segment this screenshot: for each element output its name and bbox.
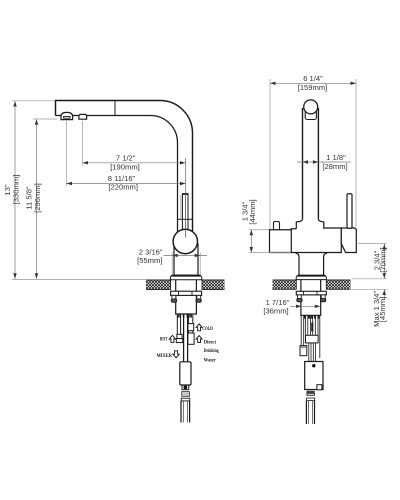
dim line max tail	[383, 289, 385, 300]
base flange	[296, 275, 326, 279]
ext line spout top	[12, 100, 55, 102]
valve box notch	[317, 385, 322, 390]
spout divider	[114, 101, 116, 116]
left stud	[297, 295, 301, 299]
ext line 6 1/4 left	[269, 79, 271, 229]
handle block	[341, 228, 356, 253]
ext line nozzle	[82, 121, 84, 166]
svg-text:COLD: COLD	[202, 326, 213, 332]
lower hose tube	[181, 401, 190, 423]
valve body below joint	[174, 244, 198, 275]
wand hose	[184, 315, 188, 362]
aerator mouth	[64, 116, 70, 118]
outlet tube	[306, 401, 314, 424]
dim line 1 3/4	[250, 230, 252, 253]
arrowheads 1 7/16	[296, 305, 320, 308]
arrowheads 6 1/4	[270, 82, 356, 85]
ext line aerator	[66, 121, 68, 186]
left stud foot	[171, 299, 176, 302]
cold hose connector	[188, 324, 194, 331]
clip dot	[184, 386, 188, 390]
shank through counter	[301, 280, 321, 315]
ext lines 2 3/16	[172, 253, 200, 275]
main body	[291, 228, 341, 253]
counter edges	[273, 280, 351, 289]
arrowhead max up	[383, 290, 386, 296]
svg-text:HOT: HOT	[160, 337, 168, 343]
dim line 13in	[14, 102, 16, 279]
base flange	[170, 275, 201, 280]
ball joint circle	[173, 229, 197, 253]
handle lever	[347, 194, 352, 229]
spout outer outline	[56, 101, 193, 236]
countertop hatched right part	[202, 280, 225, 290]
shank through counter	[176, 280, 197, 314]
ext line counter bottom right	[352, 288, 388, 290]
bundle connector inner	[309, 343, 316, 362]
drinking water connector	[188, 333, 194, 344]
svg-text:[55mm]: [55mm]	[137, 256, 162, 265]
neck	[296, 253, 327, 275]
countertop hatched left part	[273, 280, 297, 289]
svg-text:[190mm]: [190mm]	[110, 163, 140, 172]
right stud foot	[196, 299, 201, 302]
svg-text:[44mm]: [44mm]	[248, 199, 257, 224]
small connector box	[300, 346, 307, 356]
svg-text:1 1/8": 1 1/8"	[326, 153, 346, 162]
hose weight cylinder	[180, 362, 191, 385]
ext line handle bottom	[358, 243, 387, 245]
gray sleeve	[182, 392, 190, 397]
arrowheads 7 1/2	[83, 161, 186, 164]
cold supply hose	[188, 315, 192, 324]
mixer arrow down	[173, 351, 179, 358]
arrowheads 2 3/16	[172, 254, 200, 257]
wand top edge	[182, 193, 188, 195]
wire center extension line x=185.5 (upper part)	[185, 158, 187, 193]
cold knob	[274, 222, 280, 230]
svg-text:6 1/4": 6 1/4"	[303, 74, 323, 83]
hose stubs below shank	[178, 314, 191, 317]
ext line counter top left	[12, 279, 146, 281]
collar ring 2	[307, 398, 315, 401]
ext lines 1 3/4	[249, 230, 291, 253]
svg-text:[45mm]: [45mm]	[378, 297, 387, 322]
spout tube	[303, 108, 319, 219]
svg-text:[296mm]: [296mm]	[33, 183, 42, 213]
dim line 1 1/8 leader	[297, 161, 351, 163]
wand joint line	[178, 218, 192, 220]
right stud foot	[320, 298, 325, 301]
nozzle button	[79, 114, 87, 119]
dim line 11 5/8	[36, 120, 38, 279]
dim leader 1 7/16	[290, 305, 320, 307]
hot supply hose	[177, 315, 180, 334]
svg-text:[159mm]: [159mm]	[298, 83, 328, 92]
ext line counter top right	[352, 278, 387, 280]
svg-text:7 1/2": 7 1/2"	[116, 154, 136, 163]
arrowheads 8 11/16	[67, 182, 186, 185]
cold arrow up	[196, 324, 202, 331]
collar ring 1	[307, 393, 315, 395]
filter valve box	[305, 362, 323, 390]
countertop hatched left part	[146, 280, 171, 290]
drinking arrow up	[196, 336, 202, 343]
dim line 8 11/16	[67, 183, 186, 185]
arrowheads 1 3/4	[250, 230, 253, 253]
head collar	[305, 111, 316, 120]
arrowheads 2 3/4	[383, 244, 386, 279]
cold valve block	[270, 230, 292, 253]
dim line 2 3/16	[164, 254, 208, 256]
right outer hose line	[319, 315, 321, 358]
svg-text:Direct: Direct	[204, 339, 216, 345]
left stud	[172, 295, 176, 299]
svg-text:[28mm]: [28mm]	[322, 162, 347, 171]
bundle dark dash	[311, 323, 313, 332]
svg-text:Water: Water	[204, 358, 216, 364]
arrowheads 1 1/8	[303, 160, 319, 163]
dim line 7 1/2	[83, 162, 186, 164]
weight clip box	[182, 385, 189, 389]
svg-text:[36mm]: [36mm]	[263, 307, 288, 316]
ext line 6 1/4 right	[355, 79, 357, 227]
dark collar band	[307, 391, 315, 393]
svg-text:1 7/16": 1 7/16"	[266, 298, 290, 307]
wire center line into joint	[185, 193, 187, 238]
hose stubs below right shank	[305, 316, 319, 319]
dim line 2 3/4	[383, 244, 385, 279]
svg-text:MIXER: MIXER	[157, 353, 173, 359]
valve box dot	[312, 364, 315, 367]
svg-text:[220mm]: [220mm]	[108, 183, 138, 192]
svg-text:[70mm]: [70mm]	[379, 247, 388, 272]
locknut bar	[296, 291, 326, 295]
hot hose connector	[177, 334, 182, 338]
right stud	[197, 295, 201, 299]
arrowheads 13in	[13, 101, 16, 279]
spout inner outline	[56, 116, 178, 236]
svg-text:[330mm]: [330mm]	[12, 175, 21, 205]
ext line spout bottom	[33, 118, 57, 120]
hose bundle	[306, 315, 318, 335]
bundle connector	[306, 335, 319, 343]
aerator dome	[61, 112, 73, 119]
dim line 6 1/4	[270, 82, 356, 84]
body flare	[296, 219, 324, 229]
arrowheads 11 5/8	[35, 119, 38, 279]
hose ring	[181, 398, 190, 401]
pull-out wand handle	[182, 194, 188, 231]
counter edges	[146, 280, 225, 290]
svg-text:Drinking: Drinking	[204, 348, 219, 354]
wand sleeve line	[180, 195, 182, 219]
svg-text:13": 13"	[3, 184, 12, 195]
left stud foot	[297, 298, 302, 301]
connector box band	[300, 346, 306, 348]
left thin hose	[301, 315, 304, 345]
head sphere	[304, 100, 318, 114]
countertop hatched right part	[326, 280, 350, 289]
hot arrow up	[169, 335, 175, 342]
locknut bar	[171, 291, 202, 295]
right stud	[321, 295, 325, 299]
